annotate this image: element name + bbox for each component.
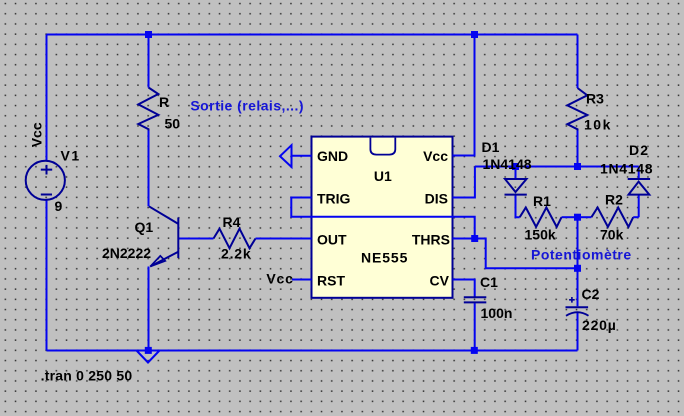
svg-text:.tran 0 250 50: .tran 0 250 50 — [41, 368, 133, 384]
svg-text:NE555: NE555 — [361, 250, 408, 266]
ground — [137, 351, 160, 363]
svg-text:D1: D1 — [482, 139, 500, 155]
node R3 bottom — [574, 163, 581, 170]
transistor Q1 — [149, 206, 178, 266]
wire R3 bottom lead — [577, 131, 579, 167]
wire left rail upper — [46, 35, 48, 162]
wire D2 top lead — [638, 167, 640, 180]
svg-text:1N4148: 1N4148 — [600, 161, 653, 177]
wire THRS pin — [453, 238, 475, 240]
node R1-R2 tap — [574, 214, 581, 221]
svg-text:OUT: OUT — [317, 231, 347, 247]
wire C1 bottom lead — [474, 303, 476, 350]
wire D2 bottom lead — [638, 196, 640, 218]
wire bottom rail — [47, 350, 578, 352]
wire CV pin — [453, 280, 475, 297]
port flag at GND — [280, 145, 292, 167]
svg-text:V1: V1 — [61, 148, 81, 164]
node R top — [145, 31, 152, 38]
svg-text:THRS: THRS — [412, 231, 450, 247]
wire GND pin — [292, 155, 312, 157]
svg-text:Vcc: Vcc — [423, 148, 448, 164]
wire DIS rail — [475, 166, 639, 168]
svg-text:1N4148: 1N4148 — [483, 156, 532, 172]
IC U1 NE555 body — [312, 137, 453, 298]
diode D2 — [628, 179, 650, 195]
svg-text:10k: 10k — [584, 117, 612, 133]
svg-text:R4: R4 — [223, 214, 241, 230]
svg-text:Vcc: Vcc — [266, 271, 293, 287]
svg-text:CV: CV — [430, 273, 450, 289]
svg-text:Sortie (relais,...): Sortie (relais,...) — [190, 98, 304, 114]
resistor R1 — [520, 208, 562, 227]
wire base — [178, 238, 213, 240]
capacitor C2 — [566, 297, 589, 316]
resistor R2 — [591, 208, 633, 227]
voltage source V1 — [26, 161, 65, 200]
svg-text:R: R — [159, 94, 169, 110]
svg-text:Q1: Q1 — [135, 219, 154, 235]
svg-text:100n: 100n — [481, 305, 513, 321]
wire D1 top lead — [515, 167, 517, 180]
wire RST pin — [292, 279, 312, 281]
wire left rail lower — [46, 200, 48, 351]
svg-text:50: 50 — [165, 115, 181, 131]
svg-text:150k: 150k — [525, 227, 556, 243]
wire Vcc pin — [453, 35, 475, 156]
svg-text:220µ: 220µ — [582, 317, 617, 333]
wire top rail — [47, 34, 578, 36]
wire DIS pin — [453, 167, 475, 198]
node C2 top — [574, 265, 581, 272]
wire OUT — [256, 238, 312, 240]
node Vcc drop — [471, 31, 478, 38]
svg-text:TRIG: TRIG — [317, 190, 351, 206]
wire R top lead — [148, 35, 150, 88]
wire R2 to D2 — [633, 216, 639, 218]
wire potentiometer tap — [577, 217, 579, 268]
wire C2 bottom lead — [577, 313, 579, 351]
wire R3 top lead — [577, 35, 579, 89]
svg-text:C2: C2 — [582, 286, 600, 302]
resistor R (50) — [138, 88, 158, 131]
svg-text:2.2k: 2.2k — [221, 246, 251, 262]
svg-text:2N2222: 2N2222 — [102, 245, 151, 261]
wire collector lead — [148, 131, 150, 207]
svg-text:R3: R3 — [586, 91, 604, 107]
IC notch — [370, 138, 395, 155]
svg-text:DIS: DIS — [425, 190, 448, 206]
svg-text:Vcc: Vcc — [29, 122, 45, 147]
svg-text:RST: RST — [317, 273, 345, 289]
diode D1 — [505, 179, 527, 195]
node C1 bottom — [471, 347, 478, 354]
node emitter-ground — [145, 347, 152, 354]
junction node squares — [145, 31, 581, 354]
svg-text:9: 9 — [55, 198, 63, 214]
svg-text:U1: U1 — [374, 168, 392, 184]
resistor R4 — [214, 229, 256, 249]
wire emitter lead — [148, 267, 150, 351]
wire TRIG to THRS — [291, 198, 474, 239]
resistor R3 — [567, 88, 587, 131]
capacitor C1 — [464, 297, 487, 302]
svg-text:D2: D2 — [629, 142, 649, 158]
svg-text:C1: C1 — [480, 274, 498, 290]
svg-text:70k: 70k — [600, 227, 624, 243]
wire THRS to C2 top — [475, 239, 578, 269]
node THRS — [471, 235, 478, 242]
svg-text:GND: GND — [317, 148, 348, 164]
node D1 anode — [512, 163, 519, 170]
wire C2 top lead — [577, 268, 579, 306]
svg-text:R2: R2 — [605, 192, 623, 208]
wire D1 bottom lead — [516, 196, 520, 218]
wire R1 right lead — [562, 216, 578, 218]
svg-text:Potentiomètre: Potentiomètre — [531, 247, 632, 263]
svg-text:R1: R1 — [533, 193, 551, 209]
wire R2 left lead — [578, 216, 592, 218]
